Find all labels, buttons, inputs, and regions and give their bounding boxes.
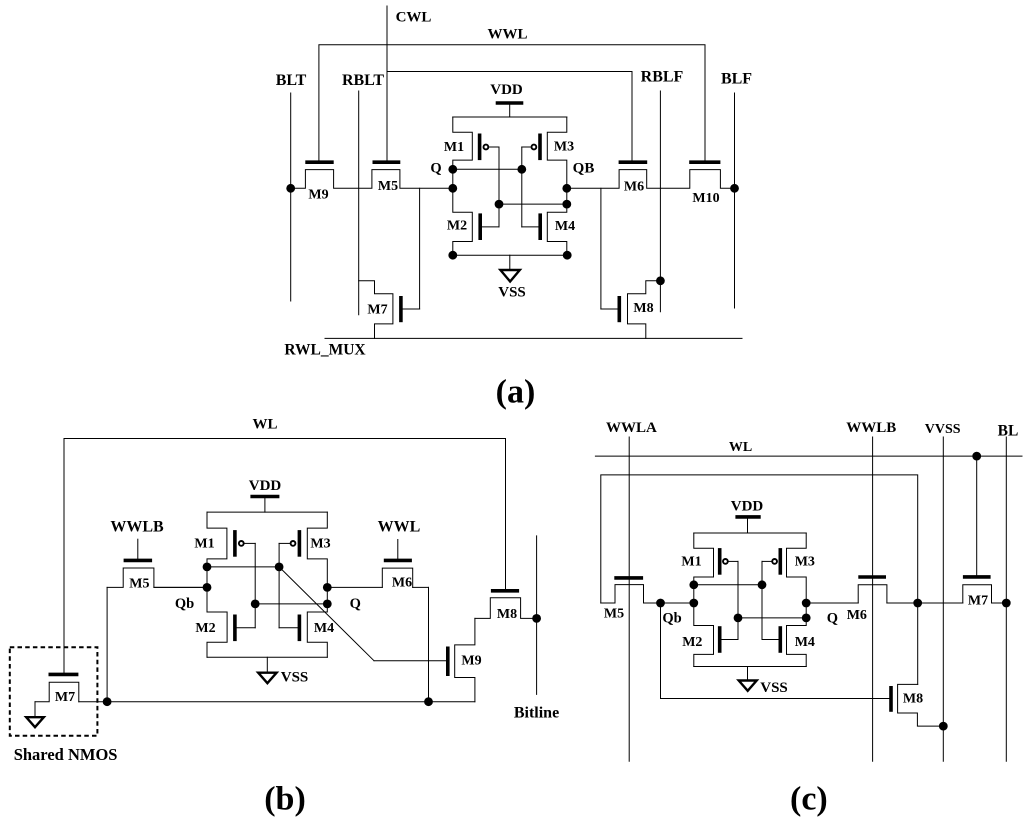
svg-text:M6: M6 <box>624 180 644 195</box>
svg-text:WWL: WWL <box>487 27 527 43</box>
svg-text:M7: M7 <box>55 690 75 705</box>
svg-text:Qb: Qb <box>662 611 681 627</box>
svg-text:(a): (a) <box>496 373 536 410</box>
svg-text:M2: M2 <box>447 219 467 234</box>
svg-text:BLF: BLF <box>721 71 752 88</box>
svg-text:WL: WL <box>729 440 752 455</box>
svg-text:RWL_MUX: RWL_MUX <box>284 342 366 359</box>
svg-text:Q: Q <box>827 611 838 627</box>
svg-text:WWLB: WWLB <box>110 519 164 536</box>
svg-text:M4: M4 <box>795 635 815 650</box>
svg-text:WWLB: WWLB <box>846 420 896 436</box>
svg-text:M9: M9 <box>461 654 481 669</box>
svg-text:M6: M6 <box>392 576 412 591</box>
svg-text:RBLT: RBLT <box>342 72 384 89</box>
svg-text:Qb: Qb <box>175 596 194 612</box>
svg-text:Q: Q <box>430 161 441 177</box>
svg-text:M2: M2 <box>682 635 702 650</box>
svg-text:VSS: VSS <box>498 285 526 301</box>
svg-text:(b): (b) <box>264 781 306 818</box>
svg-text:Q: Q <box>350 596 361 612</box>
svg-text:M6: M6 <box>847 608 867 623</box>
svg-text:M4: M4 <box>314 621 334 636</box>
svg-text:Bitline: Bitline <box>514 705 559 722</box>
svg-text:M1: M1 <box>444 140 464 155</box>
svg-text:CWL: CWL <box>396 10 432 26</box>
svg-text:M3: M3 <box>310 537 330 552</box>
svg-text:VSS: VSS <box>760 680 788 696</box>
svg-text:RBLF: RBLF <box>641 69 684 86</box>
svg-text:VVSS: VVSS <box>925 422 961 437</box>
svg-text:BL: BL <box>998 422 1019 439</box>
svg-text:M5: M5 <box>604 607 624 622</box>
svg-text:WWL: WWL <box>378 519 421 536</box>
svg-text:QB: QB <box>573 161 595 177</box>
svg-text:M5: M5 <box>378 179 398 194</box>
svg-text:M2: M2 <box>195 621 215 636</box>
svg-text:M10: M10 <box>692 191 719 206</box>
svg-text:M3: M3 <box>554 140 574 155</box>
svg-text:(c): (c) <box>790 781 828 818</box>
svg-text:M1: M1 <box>681 555 701 570</box>
svg-text:M8: M8 <box>497 607 517 622</box>
svg-text:WL: WL <box>252 417 277 433</box>
svg-text:BLT: BLT <box>276 72 307 89</box>
svg-text:Shared NMOS: Shared NMOS <box>14 745 118 764</box>
svg-text:M8: M8 <box>903 692 923 707</box>
svg-text:M3: M3 <box>795 555 815 570</box>
svg-text:M5: M5 <box>129 577 149 592</box>
svg-text:M1: M1 <box>194 537 214 552</box>
svg-text:VDD: VDD <box>731 499 764 515</box>
svg-text:M7: M7 <box>968 594 988 609</box>
svg-text:VSS: VSS <box>281 670 309 686</box>
svg-text:M4: M4 <box>555 219 575 234</box>
svg-text:M9: M9 <box>308 188 328 203</box>
svg-text:VDD: VDD <box>249 478 282 494</box>
svg-text:M7: M7 <box>367 303 387 318</box>
svg-text:WWLA: WWLA <box>606 420 657 436</box>
svg-text:M8: M8 <box>633 301 653 316</box>
svg-text:VDD: VDD <box>490 82 523 98</box>
